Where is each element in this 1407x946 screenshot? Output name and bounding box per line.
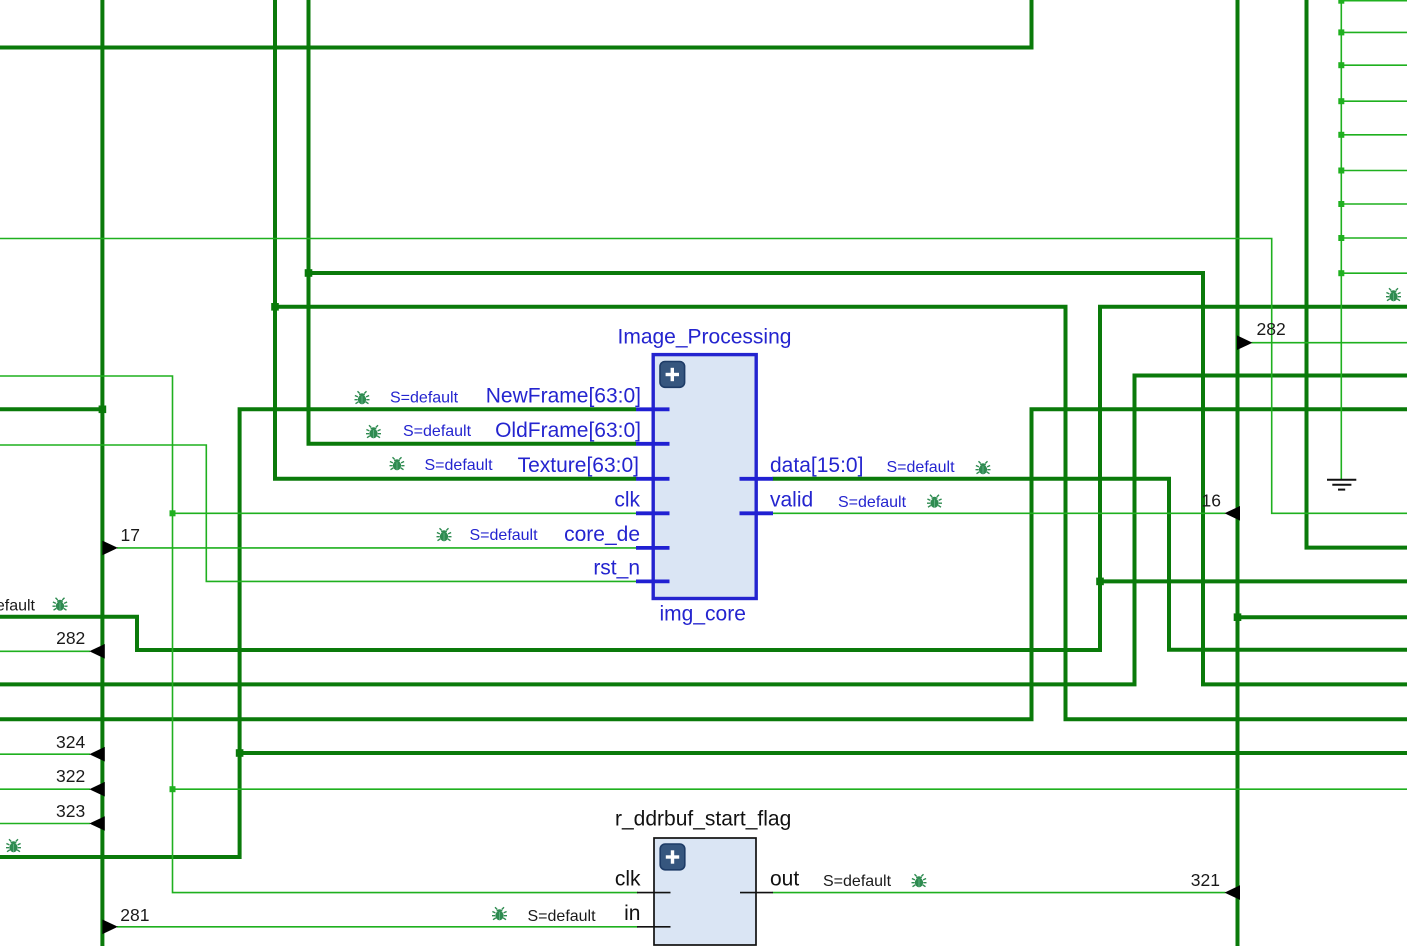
pin rst_n stub	[636, 580, 670, 584]
wire clk net trunk: y=376 from west, down x=172.5, right y=892.6 to clk stub of r_ddrbuf	[0, 376, 638, 893]
wire net 323 to west edge	[0, 823, 90, 825]
wire OldFrame bus: vertical x=308.5 down then right to pin	[309, 0, 637, 444]
wire net 322 to west edge	[0, 788, 90, 790]
pin out stub	[740, 892, 773, 894]
arrow net 282-left pointing left	[89, 644, 105, 659]
tap node (1341.3,238)	[1338, 235, 1344, 241]
junction at (308.5,273)	[305, 269, 313, 277]
arrow net 324 pointing left	[89, 747, 105, 762]
bug icon net-616 left	[53, 598, 68, 611]
wire tap bus vertical x=1341.3 down to ground	[1340, 0, 1342, 479]
tap node (1341.3,65.2)	[1338, 62, 1344, 68]
pin data[15:0] stub	[740, 477, 774, 481]
wire net 282-left to west edge	[0, 650, 90, 652]
bug icon OldFrame	[366, 425, 381, 438]
wire net-306 segment B: right part to east edge, down x=1100, left y=650 to x=137, up, left y=616.7	[0, 307, 1407, 650]
expand button of r_ddrbuf_start_flag	[660, 844, 685, 870]
junction at (1237.5,617.2)	[1234, 613, 1242, 621]
svg-text:323: 323	[56, 801, 85, 821]
wire valid net to arrow 16	[773, 512, 1226, 514]
arrow net 16 pointing left	[1225, 506, 1241, 521]
svg-text:321: 321	[1191, 870, 1220, 890]
tap node (1341.3,134.8)	[1338, 132, 1344, 138]
wire net-375: y=375.5 from east, down x=1134.5, left y=684.4 to west edge	[0, 376, 1407, 685]
svg-text:core_de: core_de	[564, 523, 640, 546]
wire NewFrame left stub: y=409.3 from west to bus x=102.4	[0, 407, 102, 411]
wire bus V12 vertical x=1237.5 full height	[1236, 0, 1240, 946]
wire NewFrame bus: from pin left, down x=239.6, left y=857 to west edge	[0, 409, 636, 857]
wire net-273: from x=308.5 right, down at x=1203, right at y=684.4	[309, 273, 1407, 684]
junction at (102.4,409.3)	[99, 406, 107, 414]
svg-text:S=default: S=default	[528, 908, 597, 925]
svg-text:clk: clk	[615, 868, 641, 891]
junction at (1100,581.4)	[1096, 578, 1104, 586]
svg-text:324: 324	[56, 732, 85, 752]
wire rst_n net: y=444.2 from west, down x=205.8, right y=581.4 to rst_n pin	[0, 445, 637, 581]
svg-text:Texture[63:0]: Texture[63:0]	[518, 454, 639, 477]
wire net 282-right from arrow to east edge	[1252, 342, 1407, 344]
svg-text:S=default: S=default	[425, 457, 494, 474]
svg-text:S=default: S=default	[470, 527, 539, 544]
svg-text:OldFrame[63:0]: OldFrame[63:0]	[495, 419, 641, 442]
tap node (1341.3,0.7)	[1338, 0, 1344, 4]
wire net 324 to west edge	[0, 753, 90, 755]
svg-text:rst_n: rst_n	[593, 556, 640, 579]
svg-text:281: 281	[120, 905, 149, 925]
ground symbol	[1327, 480, 1356, 490]
tap node (1341.3,204)	[1338, 201, 1344, 207]
svg-text:data[15:0]: data[15:0]	[770, 454, 863, 477]
svg-text:in: in	[624, 902, 640, 925]
wire tap branch y=273.2	[1341, 272, 1407, 274]
svg-text:NewFrame[63:0]: NewFrame[63:0]	[486, 384, 641, 407]
module U1 Image_Processing (img_core) body	[653, 355, 756, 599]
pin clk stub of r_ddrbuf	[637, 892, 671, 894]
svg-text:clk: clk	[614, 488, 640, 511]
wire tap branch y=65.2	[1341, 64, 1407, 66]
pin in stub	[637, 926, 671, 928]
tap node (1341.3,170.5)	[1338, 168, 1344, 174]
junction at (239.6,753)	[236, 749, 244, 757]
wire tap branch y=204	[1341, 203, 1407, 205]
wire net-581R: from junction (1100,581.4) right to east edge	[1100, 579, 1407, 583]
wire tap branch y=134.8	[1341, 134, 1407, 136]
bug icon Texture	[390, 457, 405, 470]
arrow net 281 pointing right	[102, 920, 118, 935]
svg-text:S=default: S=default	[403, 423, 472, 440]
wire net-306 segment A: from junction (275,306.8) right, down x=1065.5, right y=719.3	[275, 307, 1407, 720]
pin core_de stub	[636, 546, 670, 550]
svg-text:17: 17	[121, 525, 140, 545]
svg-text:Image_Processing: Image_Processing	[618, 326, 792, 349]
wire bus V2 vertical x=102.4 full height	[100, 0, 104, 946]
bug icon in	[492, 907, 507, 920]
svg-text:S=default: S=default	[887, 459, 956, 476]
wire branch net-789 from tap (172.5,789.2) to east edge	[173, 788, 1407, 790]
arrow net 282-right pointing right	[1237, 335, 1253, 350]
svg-text:16: 16	[1202, 491, 1221, 511]
wire Texture bus: vertical x=275 down then right to pin	[275, 0, 636, 479]
wire net 17 to core_de pin	[117, 547, 637, 549]
pin NewFrame[63:0] stub	[636, 407, 670, 411]
wire net-547R: vertical x=1306.5 down then right at y=547.6	[1307, 0, 1407, 548]
arrow net 323 pointing left	[89, 816, 105, 831]
arrow net 17 pointing right	[102, 541, 118, 556]
svg-text:out: out	[770, 868, 799, 891]
svg-text:S=default: S=default	[823, 873, 892, 890]
wire clk branch to img_core clk pin	[173, 512, 638, 514]
tap node (1341.3,32.4)	[1338, 29, 1344, 35]
pin OldFrame[63:0] stub	[636, 442, 670, 446]
bug icon net-306 right edge	[1386, 288, 1401, 301]
bug icon valid	[927, 495, 942, 508]
wire net-617R: from junction (1237.5,617.2) right to east edge	[1238, 615, 1407, 619]
wire net-719: y=719.3 from west, up x=1031.5, right y=409.3 to east edge	[0, 409, 1407, 719]
module U2 r_ddrbuf_start_flag body	[654, 838, 756, 945]
svg-text:282: 282	[1257, 319, 1286, 339]
svg-text:valid: valid	[770, 488, 813, 511]
wire tap branch y=0.7	[1341, 0, 1407, 2]
pin valid stub	[740, 511, 774, 515]
wire tap branch y=238	[1341, 237, 1407, 239]
expand button of img_core	[660, 362, 685, 388]
junction thin at (172.5,513.3)	[170, 510, 176, 516]
wire net-top: horizontal y=47.5 then up at x=1031.5	[0, 0, 1032, 48]
bug icon data	[976, 461, 991, 474]
svg-text:img_core: img_core	[660, 603, 746, 626]
svg-text:282: 282	[56, 628, 85, 648]
bug icon out	[912, 874, 927, 887]
junction thin at (172.5,789.2)	[170, 786, 176, 792]
arrow net 322 pointing left	[89, 782, 105, 797]
pin clk stub of img_core	[636, 511, 670, 515]
svg-text:S=default: S=default	[0, 598, 36, 615]
wire net 281 to in pin	[117, 926, 638, 928]
arrow net 321 pointing left	[1225, 885, 1241, 900]
svg-text:322: 322	[56, 766, 85, 786]
wire tap branch y=32.4	[1341, 31, 1407, 33]
wire net-238: y=238.5 from west, down x=1271.7, right y=513.3 to east edge	[0, 239, 1407, 514]
wire tap branch y=101.2	[1341, 100, 1407, 102]
svg-text:S=default: S=default	[390, 390, 459, 407]
bug icon NewFrame	[355, 391, 370, 404]
tap node (1341.3,273.2)	[1338, 270, 1344, 276]
wire net-753: from junction (239.6,753) right to east edge	[240, 751, 1407, 755]
bug icon core_de	[437, 528, 452, 541]
tap node (1341.3,101.2)	[1338, 98, 1344, 104]
bug icon net-857 left	[6, 839, 21, 852]
pin Texture[63:0] stub	[636, 477, 670, 481]
wire out net 321 from out stub to arrow	[773, 892, 1226, 894]
wire tap branch y=170.5	[1341, 170, 1407, 172]
junction at (275,306.8)	[271, 303, 279, 311]
svg-text:r_ddrbuf_start_flag: r_ddrbuf_start_flag	[615, 808, 791, 831]
svg-text:S=default: S=default	[838, 494, 907, 511]
wire data bus: from pin right, down x=1169, right y=649.8 to east edge	[773, 479, 1407, 650]
